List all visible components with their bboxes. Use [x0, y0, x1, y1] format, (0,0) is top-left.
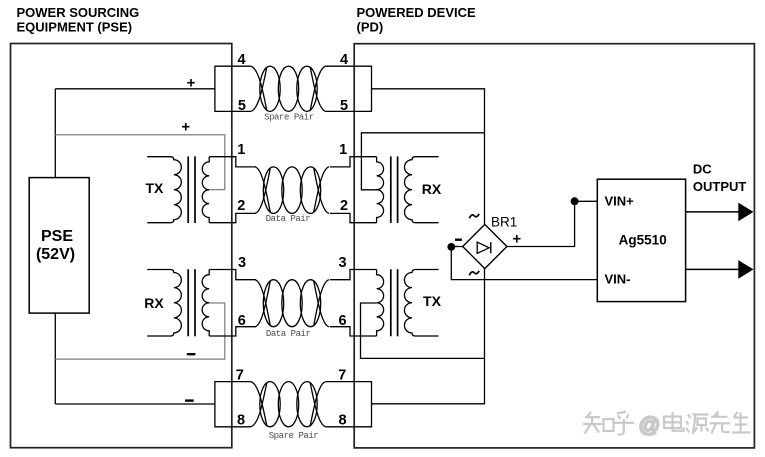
label - (bridge) [455, 238, 462, 240]
PD device outline box [354, 44, 754, 448]
svg-text:3: 3 [339, 255, 347, 271]
wire bridge AC bottom to spare 7/8 [372, 268, 485, 404]
PSE equipment outline box [11, 44, 232, 448]
transformer TX (PD side) [330, 269, 439, 336]
wire bridge - to VIN- [451, 247, 597, 280]
svg-text:6: 6 [238, 313, 246, 329]
svg-text:4: 4 [238, 52, 246, 68]
transformer RX (PSE side) [147, 269, 256, 336]
Ag5510 module box U1 [597, 179, 685, 301]
wire PSE + to TX center tap (grey) [55, 135, 225, 190]
bridge rectifier BR1 diamond [463, 224, 507, 268]
PSE (52V) source box [29, 178, 89, 314]
transformer RX (PD side) [330, 156, 439, 223]
label ~ bottom [469, 271, 479, 275]
svg-text:7: 7 [338, 368, 346, 384]
wire DC output + [686, 211, 740, 213]
svg-text:EQUIPMENT (PSE): EQUIPMENT (PSE) [17, 19, 133, 34]
label ~ top [469, 214, 479, 218]
svg-text:7: 7 [236, 368, 244, 384]
svg-text:8: 8 [338, 413, 346, 429]
svg-text:VIN-: VIN- [605, 271, 631, 286]
label - (spare pair return) [185, 399, 194, 401]
arrowhead DC output - [738, 260, 753, 279]
wire bridge - dot to diamond [451, 246, 462, 248]
svg-text:Data Pair: Data Pair [266, 214, 311, 224]
label DC OUTPUT [693, 161, 747, 194]
svg-text:Spare Pair: Spare Pair [264, 113, 314, 123]
connector left pins 7/8 box [215, 382, 251, 427]
connector right pins 4/5 box [326, 66, 372, 111]
svg-text:6: 6 [339, 313, 347, 329]
svg-text:Ag5510: Ag5510 [619, 233, 667, 248]
label: POWER SOURCING EQUIPMENT (PSE) header [17, 5, 140, 34]
twisted pair coil: data pair top [255, 167, 329, 214]
svg-text:4: 4 [340, 52, 348, 68]
transformer TX (PSE side) [147, 156, 256, 223]
svg-text:(PD): (PD) [357, 19, 384, 34]
svg-text:+: + [181, 118, 190, 135]
svg-text:BR1: BR1 [491, 214, 517, 229]
twisted pair coil: data pair bottom [255, 280, 329, 327]
svg-text:Spare Pair: Spare Pair [269, 431, 319, 441]
connector left pins 4/5 box [215, 66, 251, 111]
twisted pair coil: spare pair bottom [251, 382, 326, 427]
wire spare 4/5 to bridge AC top [372, 89, 485, 225]
svg-text:RX: RX [422, 181, 442, 197]
wire PSE - to RX center tap (grey) [55, 303, 225, 359]
wire DC output - [686, 268, 740, 270]
svg-text:3: 3 [238, 255, 246, 271]
arrowhead DC output + [738, 203, 753, 222]
junction dot VIN+ node [571, 197, 579, 205]
wire TX center tap to bridge bus [361, 303, 485, 358]
svg-text:@: @ [639, 413, 661, 437]
svg-text:DC: DC [693, 161, 712, 176]
junction dot bridge - node [447, 243, 455, 251]
twisted pair coil: spare pair top [251, 66, 326, 111]
svg-text:VIN+: VIN+ [605, 193, 635, 208]
svg-text:1: 1 [339, 142, 347, 158]
svg-text:1: 1 [237, 142, 245, 158]
wire PSE - to spare pair 7/8 [55, 403, 215, 405]
svg-text:POWERED DEVICE: POWERED DEVICE [357, 5, 477, 20]
diode symbol inside BR1 [477, 242, 491, 253]
svg-text:OUTPUT: OUTPUT [693, 179, 747, 194]
label - (RX center tap return) [187, 353, 196, 355]
wire PSE + to spare pair 4/5 [55, 88, 215, 90]
svg-text:2: 2 [340, 198, 348, 214]
svg-text:TX: TX [145, 180, 164, 196]
svg-text:2: 2 [237, 198, 245, 214]
svg-text:8: 8 [237, 413, 245, 429]
svg-text:POWER SOURCING: POWER SOURCING [17, 5, 140, 20]
svg-text:RX: RX [144, 295, 164, 311]
wire RX center tap to bridge bus [361, 133, 484, 190]
wire PSE bottom trunk [54, 313, 56, 404]
svg-text:PSE: PSE [41, 228, 73, 245]
svg-text:+: + [187, 74, 196, 91]
svg-text:5: 5 [238, 98, 246, 114]
label: POWERED DEVICE (PD) header [357, 5, 477, 34]
watermark zhihu @dianyuanxiansheng (grey) [583, 412, 751, 438]
wire PSE top trunk [54, 89, 56, 178]
svg-text:Data Pair: Data Pair [266, 329, 311, 339]
wire bridge + to VIN+ [507, 201, 597, 246]
connector right pins 7/8 box [326, 382, 372, 427]
svg-text:TX: TX [423, 293, 442, 309]
svg-text:5: 5 [340, 98, 348, 114]
svg-text:+: + [512, 231, 521, 248]
svg-text:(52V): (52V) [36, 246, 75, 263]
